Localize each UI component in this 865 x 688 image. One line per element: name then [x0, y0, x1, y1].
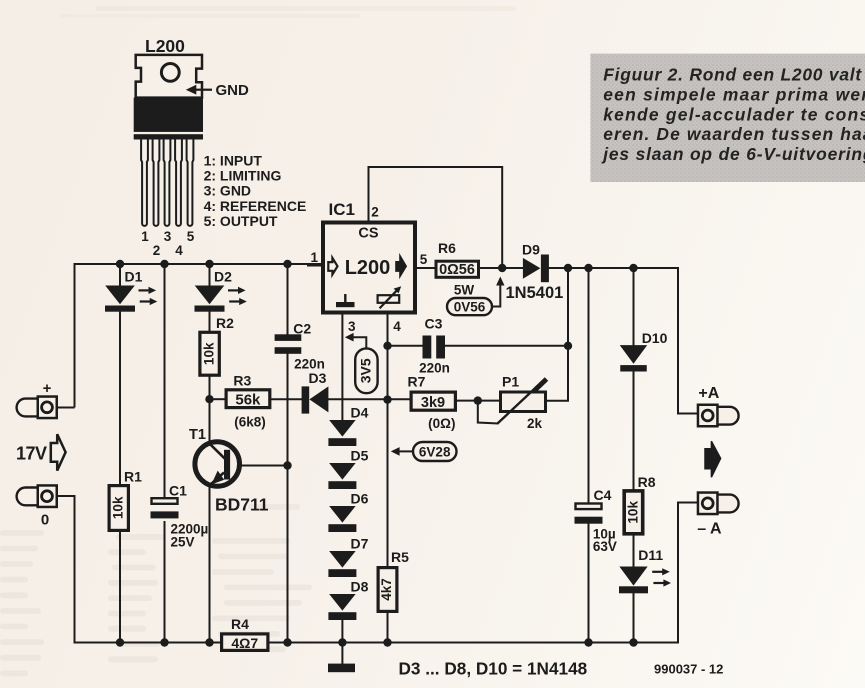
svg-text:3: 3: [164, 229, 172, 244]
svg-text:17V: 17V: [16, 444, 47, 464]
svg-text:D2: D2: [214, 269, 232, 285]
svg-text:R1: R1: [124, 469, 142, 485]
svg-text:R8: R8: [638, 474, 656, 490]
svg-text:63V: 63V: [593, 539, 617, 554]
svg-text:0Ω56: 0Ω56: [439, 262, 475, 278]
svg-text:4: REFERENCE: 4: REFERENCE: [204, 198, 307, 214]
svg-text:R3: R3: [233, 373, 251, 389]
svg-text:(6k8): (6k8): [234, 415, 266, 430]
svg-text:+: +: [43, 380, 52, 397]
svg-text:D1: D1: [125, 269, 143, 285]
svg-text:4k7: 4k7: [379, 578, 394, 601]
svg-text:een simpele maar prima wer-: een simpele maar prima wer-: [603, 85, 865, 105]
svg-text:0V56: 0V56: [454, 300, 486, 315]
svg-text:CS: CS: [358, 226, 378, 242]
svg-text:– A: – A: [697, 521, 722, 538]
svg-text:3k9: 3k9: [421, 395, 445, 411]
svg-text:3: GND: 3: GND: [204, 183, 251, 199]
svg-text:GND: GND: [216, 82, 250, 99]
svg-text:D4: D4: [351, 405, 369, 421]
svg-text:T1: T1: [189, 427, 206, 443]
svg-text:2k: 2k: [527, 416, 543, 431]
svg-text:C3: C3: [425, 316, 443, 332]
svg-text:10k: 10k: [625, 501, 640, 524]
svg-text:eren. De waarden tussen haak-: eren. De waarden tussen haak-: [603, 124, 865, 144]
svg-text:D9: D9: [522, 242, 540, 258]
svg-text:C4: C4: [594, 487, 612, 503]
svg-text:kende gel-acculader te constru: kende gel-acculader te constru-: [603, 104, 865, 124]
svg-text:990037 - 12: 990037 - 12: [654, 662, 723, 677]
svg-text:C2: C2: [293, 321, 311, 337]
svg-text:D6: D6: [351, 491, 369, 507]
svg-text:R4: R4: [231, 616, 249, 632]
svg-text:5W: 5W: [454, 283, 475, 298]
svg-text:R5: R5: [391, 549, 409, 565]
svg-text:2: 2: [153, 243, 161, 258]
svg-text:R2: R2: [216, 315, 234, 331]
svg-text:D8: D8: [351, 579, 369, 595]
svg-text:IC1: IC1: [329, 200, 355, 219]
svg-text:3V5: 3V5: [358, 358, 374, 383]
svg-text:2: LIMITING: 2: LIMITING: [204, 168, 282, 184]
svg-text:C1: C1: [169, 483, 187, 499]
svg-text:D11: D11: [638, 547, 663, 563]
svg-text:10k: 10k: [111, 496, 126, 519]
svg-text:3: 3: [348, 319, 356, 334]
svg-text:2: 2: [371, 205, 379, 220]
svg-text:1: 1: [141, 229, 149, 244]
svg-text:D7: D7: [351, 536, 369, 552]
svg-text:1: INPUT: 1: INPUT: [204, 153, 263, 169]
svg-text:5: OUTPUT: 5: OUTPUT: [204, 213, 278, 229]
svg-text:6V28: 6V28: [419, 445, 451, 460]
svg-text:4: 4: [393, 319, 401, 334]
svg-text:5: 5: [187, 229, 195, 244]
svg-text:R6: R6: [438, 240, 456, 256]
svg-text:1N5401: 1N5401: [506, 284, 564, 302]
svg-text:D10: D10: [642, 330, 668, 346]
svg-text:L200: L200: [145, 36, 185, 56]
svg-text:jes slaan op de 6-V-uitvoering: jes slaan op de 6-V-uitvoering.: [601, 144, 865, 164]
svg-text:0: 0: [41, 512, 49, 529]
svg-text:56k: 56k: [235, 392, 261, 409]
svg-text:5: 5: [420, 252, 428, 267]
svg-text:+A: +A: [698, 385, 719, 402]
svg-text:D3 ... D8, D10 = 1N4148: D3 ... D8, D10 = 1N4148: [399, 659, 588, 679]
svg-text:25V: 25V: [171, 535, 195, 550]
svg-text:BD711: BD711: [215, 495, 269, 515]
svg-text:R7: R7: [408, 374, 426, 390]
svg-text:1: 1: [310, 250, 318, 265]
svg-text:4Ω7: 4Ω7: [231, 635, 258, 651]
svg-text:D5: D5: [351, 448, 369, 464]
svg-text:L200: L200: [345, 257, 391, 279]
svg-text:Figuur 2. Rond een L200 valt: Figuur 2. Rond een L200 valt: [603, 65, 862, 85]
svg-text:(0Ω): (0Ω): [428, 416, 455, 431]
svg-text:P1: P1: [502, 374, 519, 390]
svg-text:10k: 10k: [202, 342, 217, 365]
svg-text:D3: D3: [309, 370, 327, 386]
svg-text:4: 4: [175, 243, 183, 258]
